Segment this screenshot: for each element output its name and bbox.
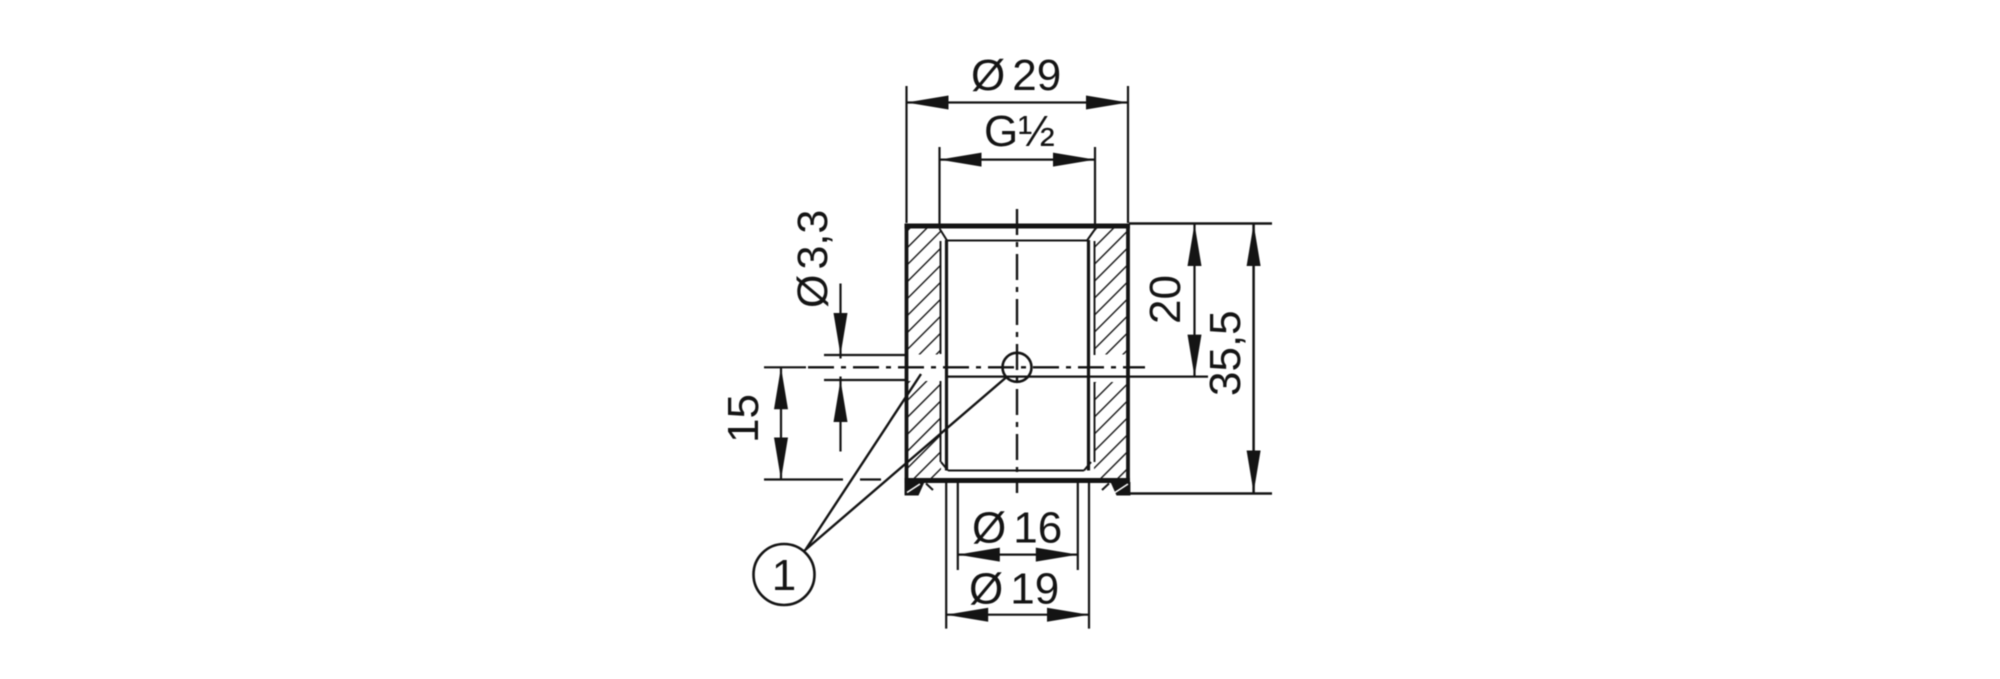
cross-hole silhouette line to 20-dim reference [947, 376, 1208, 378]
dimension Ø29 [907, 86, 1129, 223]
bottom sealing rim left foot [905, 482, 925, 496]
hatching right wall upper [1094, 227, 1127, 355]
svg-text:Ø16: Ø16 [972, 504, 1062, 553]
thread entrance chamfer [940, 229, 1096, 241]
dimension 15 (rotated) [764, 367, 881, 479]
body bottom face line [905, 478, 1131, 483]
dimension G1/2 [940, 147, 1096, 224]
horizontal centerline [808, 366, 1145, 368]
hatching right wall lower [1094, 382, 1127, 479]
hatching left wall upper [908, 227, 941, 355]
cross-hole end view circle [1003, 353, 1032, 382]
svg-text:20: 20 [1141, 275, 1190, 324]
body outline: outer walls [907, 224, 1129, 495]
svg-text:15: 15 [719, 394, 768, 443]
cross-hole Ø3.3 edge extension lines [824, 355, 906, 380]
dimension 35,5 (rotated) [1129, 224, 1272, 494]
hatching left wall lower [908, 381, 941, 479]
vertical centerline [1016, 209, 1018, 493]
svg-text:Ø29: Ø29 [971, 51, 1061, 100]
svg-text:1: 1 [772, 551, 796, 600]
svg-text:35,5: 35,5 [1201, 310, 1250, 396]
groove chamfer marks [926, 484, 1109, 491]
dimension Ø19 [946, 483, 1089, 629]
thread bore: thick minor-diameter walls [947, 240, 1089, 471]
svg-text:Ø3,3: Ø3,3 [789, 210, 837, 308]
svg-text:G½: G½ [984, 107, 1055, 156]
bottom sealing rim right foot [1111, 482, 1131, 496]
dimension Ø16 [958, 483, 1078, 570]
svg-text:Ø19: Ø19 [969, 565, 1059, 614]
dimension 20 (rotated) [1193, 224, 1195, 377]
balloon 1 [754, 544, 815, 605]
bore bottom thin line with runout chamfers [941, 462, 1091, 471]
dimension Ø3,3 (rotated) [839, 284, 841, 452]
balloon leader lines [804, 374, 1006, 551]
body top face line [905, 224, 1131, 229]
thread major-diameter thin lines [941, 241, 1095, 462]
